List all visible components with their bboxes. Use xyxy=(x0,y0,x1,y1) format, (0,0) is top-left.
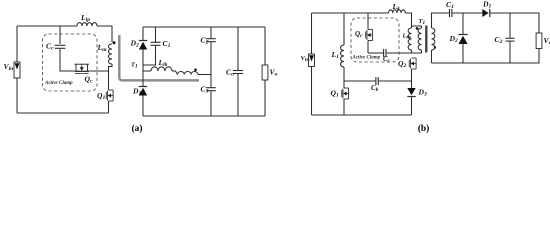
wire secondary to C2C3 node (a) xyxy=(198,74,211,76)
wire clamp to Cc (b) xyxy=(368,52,383,54)
capacitor C2 (a) xyxy=(206,38,216,40)
wire Vo bottom lead (a) xyxy=(264,80,266,116)
svg-text:T1: T1 xyxy=(419,18,426,26)
inductor Lm winding (b) xyxy=(408,28,411,50)
wire C1 bottom U-link (a) xyxy=(143,46,156,65)
wire Qc bottom lead (b) xyxy=(367,41,369,54)
inductor Lm winding (a) xyxy=(108,44,112,64)
wire D2-D1 vertical (a) xyxy=(142,50,144,88)
wire Cb right segment (b) xyxy=(379,80,412,82)
transistor Q1 (a) xyxy=(109,89,114,91)
svg-text:(b): (b) xyxy=(418,123,429,134)
polarity dot secondary (a) xyxy=(194,69,197,72)
wire L1 top lead (b) xyxy=(343,13,345,45)
wire Lm top lead (b) xyxy=(411,26,413,28)
svg-text:Vin: Vin xyxy=(301,55,310,63)
wire Q1 to bottom rail (b) xyxy=(343,99,345,115)
capacitor Cc (a) xyxy=(55,44,66,46)
transistor Q1 (b) xyxy=(344,87,349,89)
wire C2 branch (a) xyxy=(210,27,212,38)
capacitor Cb (b) xyxy=(375,77,377,85)
wire left vertical (a) xyxy=(16,26,18,113)
wire top rail left (a) xyxy=(17,25,77,27)
wire Co bottom lead (a) xyxy=(237,74,239,116)
svg-text:Active Clamp: Active Clamp xyxy=(352,56,381,61)
wire primary bottom lead (b) xyxy=(421,50,423,53)
diode D1 (b) xyxy=(489,9,491,17)
wire Co top lead (a) xyxy=(237,27,239,70)
wire D1 to right corner (b) xyxy=(490,13,539,33)
wire D2 top lead (b) xyxy=(462,13,464,35)
polarity dot primary (b) xyxy=(416,27,419,30)
wire D3 to bottom rail (b) xyxy=(411,97,413,116)
polarity dot secondary (b) xyxy=(434,46,436,48)
capacitor Co (a) xyxy=(233,70,243,72)
transformer T1 secondary winding (b) xyxy=(432,28,435,50)
inductor Lk coil (b) xyxy=(389,10,406,13)
wire Q1 source to rail (a) xyxy=(108,101,110,113)
wire Qc to switch node (a) xyxy=(89,70,108,72)
wire bottom rail secondary (a) xyxy=(143,115,265,117)
svg-text:T1: T1 xyxy=(131,62,138,70)
wire D1 to bottom rail (a) xyxy=(142,96,144,117)
wire Vo bottom lead (b) xyxy=(432,49,540,64)
diode D2 (a) xyxy=(139,40,147,42)
wire C3 bottom lead (a) xyxy=(210,91,212,116)
transformer core T1 (a) xyxy=(119,35,199,80)
active clamp dashed box (b) xyxy=(351,18,399,62)
wire Lm bottom lead (b) xyxy=(411,50,413,53)
wire Cc branch upper (a) xyxy=(59,26,61,44)
svg-text:Active Clamp: Active Clamp xyxy=(44,81,73,86)
inductor Llp coil (a) xyxy=(77,23,97,26)
transformer core T1 (b) xyxy=(425,26,427,53)
wire Qc top lead (b) xyxy=(367,13,369,30)
wire C1 top lead (a) xyxy=(155,27,157,42)
wire top rail secondary (a) xyxy=(143,26,265,28)
wire Cc branch lower (a) xyxy=(60,49,74,71)
wire secondary top lead (b) xyxy=(432,13,450,28)
transistor Qc (a) xyxy=(75,64,77,71)
wire Cb left segment (b) xyxy=(344,80,376,82)
wire C2-C3 mid branch (a) xyxy=(210,42,212,87)
wire bottom rail (b) xyxy=(312,114,412,116)
wire secondary bottom lead (b) xyxy=(431,50,433,63)
wire top rail after Lk (b) xyxy=(405,13,411,26)
voltage source Vin (b) xyxy=(309,54,315,67)
wire L1 to node (b) xyxy=(343,67,345,88)
transformer secondary winding (a) xyxy=(178,71,198,74)
capacitor C3 (a) xyxy=(206,87,216,89)
wire Lm top link (b) xyxy=(412,26,422,28)
voltage source Vin (a) xyxy=(14,62,20,78)
capacitor C1 (b) xyxy=(449,9,451,17)
wire left vertical (b) xyxy=(311,13,313,115)
svg-text:(a): (a) xyxy=(132,123,143,134)
wire Vo top lead (a) xyxy=(264,27,266,65)
capacitor Cc (b) xyxy=(383,49,385,57)
diode D2 (b) xyxy=(458,34,467,36)
svg-text:Cc: Cc xyxy=(383,56,391,64)
wire D2 top lead (a) xyxy=(142,27,144,41)
transistor Q2 (b) xyxy=(412,57,417,59)
wire Cc to transformer (b) xyxy=(386,52,421,54)
diode D1 (a) xyxy=(139,86,147,88)
polarity dot primary (a) xyxy=(113,41,116,44)
wire C2 top lead (b) xyxy=(509,13,511,38)
wire C1 to D1 (b) xyxy=(452,12,482,14)
inductor L1 coil (b) xyxy=(341,45,344,67)
wire D2 bottom lead (b) xyxy=(462,44,464,64)
resistor load Vo (a) xyxy=(262,65,268,80)
wire Llk to secondary (a) xyxy=(172,71,178,75)
wire Q2 to node (b) xyxy=(411,69,413,89)
transistor Qc (b) xyxy=(368,29,373,31)
wire top rail right segment to transformer (a) xyxy=(97,26,112,42)
inductor Llk coil (a) xyxy=(151,67,172,71)
wire Llk lead-in (a) xyxy=(143,70,151,72)
transformer T1 primary winding (b) xyxy=(418,28,421,50)
svg-text:Lm: Lm xyxy=(402,33,412,41)
resistor load Vo (b) xyxy=(536,33,542,49)
active clamp dashed box (a) xyxy=(43,34,98,91)
wire C2 bottom lead (b) xyxy=(509,42,511,63)
wire bottom rail primary (a) xyxy=(17,112,109,114)
wire top rail (b) xyxy=(312,12,389,14)
capacitor C2 (b) xyxy=(506,37,515,39)
capacitor C1 (a) xyxy=(151,41,161,43)
diode D3 (b) xyxy=(407,96,415,98)
wire Lm bottom jog (a) xyxy=(109,64,113,90)
